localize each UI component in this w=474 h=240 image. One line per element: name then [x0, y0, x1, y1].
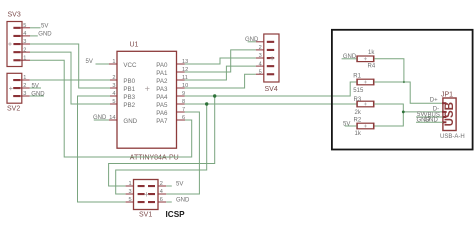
svg-text:5: 5: [112, 99, 115, 105]
svg-text:2: 2: [160, 181, 163, 187]
resistor R2: [354, 118, 374, 138]
SV3 pin stubs (pins 5,4,3,2,1): [21, 28, 30, 60]
svg-text:6: 6: [160, 197, 163, 203]
svg-text:SV4: SV4: [265, 86, 278, 93]
svg-text:ATTINY84A-PU: ATTINY84A-PU: [130, 155, 179, 162]
svg-text:SV1: SV1: [139, 212, 152, 219]
svg-text:PA4: PA4: [156, 94, 168, 101]
svg-text:5: 5: [23, 23, 26, 29]
SV2 pin numbers: [23, 75, 26, 97]
wire SV3 pin4 GND stub: [30, 35, 38, 37]
svg-text:3: 3: [23, 39, 26, 45]
U1 left pin stubs: [109, 64, 118, 120]
wire SV2 pin1 to U1 PB0: [30, 79, 110, 81]
junction PA5 branch: [205, 102, 208, 105]
wire PA4 branch to SV1 pin1: [109, 96, 215, 186]
svg-text:5V: 5V: [41, 23, 48, 29]
wire 5V stub to VCC: [96, 63, 110, 65]
svg-text:USB: USB: [443, 102, 456, 126]
svg-text:6: 6: [182, 115, 185, 121]
svg-text:4: 4: [112, 91, 115, 97]
svg-text:1: 1: [129, 181, 132, 187]
svg-text:R3: R3: [354, 97, 362, 103]
SV3 pin numbers: [23, 23, 26, 61]
wire SV4 pin1 GND stub: [248, 41, 256, 43]
wire SV2 pin3 GND stub: [30, 95, 44, 97]
wire SV3 pin3 to U1 PB1: [30, 44, 110, 88]
svg-text:1: 1: [23, 55, 26, 61]
wire U1 PA1 to SV4 pin2: [185, 50, 256, 72]
svg-text:SV2: SV2: [7, 106, 20, 113]
svg-text:2: 2: [259, 45, 262, 51]
svg-text:1k: 1k: [355, 131, 362, 137]
svg-text:4: 4: [259, 61, 262, 67]
SV1 pin numbers: [129, 181, 163, 203]
svg-text:ICSP: ICSP: [166, 210, 186, 219]
svg-text:PA0: PA0: [156, 62, 168, 69]
svg-text:PA7: PA7: [156, 118, 168, 125]
wire U1 PB3 to SV1 pin5: [78, 96, 126, 202]
USB connector JP1: [440, 92, 465, 140]
frame USB section: [332, 30, 473, 150]
svg-text:3: 3: [23, 91, 26, 97]
resistor R1: [353, 74, 374, 94]
svg-text:GND: GND: [31, 92, 45, 98]
wire SV3 pin1 to U1 PA7 (long route under U1): [30, 60, 192, 157]
U1 left pin numbers: [109, 59, 115, 121]
wire GND stub to U1 GND: [94, 119, 109, 121]
svg-text:PB2: PB2: [123, 102, 135, 109]
wire USB GND stub: [416, 121, 443, 123]
wire PA5 branch to SV1 pin3: [116, 104, 207, 194]
svg-text:2: 2: [23, 47, 26, 53]
wire U1 PA0 to SV4 pin3: [185, 58, 256, 64]
svg-text:3: 3: [129, 189, 132, 195]
SV1 pin stubs: [126, 186, 167, 202]
wire R1 right to USB D+: [374, 82, 443, 103]
svg-text:R1: R1: [353, 74, 361, 80]
wire R3 right to D- net and R2: [374, 104, 403, 126]
wire D- stub to USB: [403, 111, 443, 113]
svg-text:2: 2: [112, 75, 115, 81]
svg-text:5V: 5V: [176, 181, 183, 187]
svg-text:4: 4: [160, 189, 163, 195]
U1 origin cross: [145, 87, 149, 91]
svg-text:3: 3: [259, 53, 262, 59]
svg-text:PA2: PA2: [156, 78, 168, 85]
wire R4 right to R1 net: [374, 59, 404, 82]
svg-text:5: 5: [259, 69, 262, 75]
SV2 pin stubs (1,2,3): [21, 80, 30, 96]
wire U1 PA3 to SV4 pin5: [185, 74, 256, 88]
svg-text:PA1: PA1: [156, 70, 168, 77]
wire SV3 pin2 to U1 PB2: [30, 52, 110, 104]
resistor R4: [357, 50, 376, 70]
svg-text:GND: GND: [123, 118, 137, 125]
svg-text:USB-A-H: USB-A-H: [440, 134, 465, 140]
wire R2 5V stub: [345, 125, 357, 127]
junction D- net: [402, 111, 405, 114]
connector SV2: [7, 73, 22, 112]
svg-text:PB3: PB3: [123, 94, 135, 101]
svg-text:R4: R4: [368, 64, 376, 70]
SV3 origin cross: [8, 42, 12, 46]
SV4 pin numbers: [259, 45, 262, 75]
svg-text:GND: GND: [176, 197, 190, 203]
wire SV2 pin2 5V stub: [30, 87, 41, 89]
wire U1 PA6 to SV1 pin4: [166, 112, 199, 194]
wire VBUS stub: [416, 116, 443, 118]
svg-text:5: 5: [129, 197, 132, 203]
svg-text:2: 2: [23, 83, 26, 89]
SV1 origin cross: [144, 192, 148, 196]
SV2 origin cross: [9, 87, 13, 91]
U1 right pin stubs: [176, 64, 185, 120]
U1 left pin names: [123, 62, 137, 125]
SV4 pin stubs: [256, 42, 264, 74]
svg-text:14: 14: [109, 115, 115, 121]
SV4 origin cross: [270, 56, 274, 60]
wire U1 PA2 to SV4 pin4: [185, 66, 256, 80]
svg-text:PB0: PB0: [123, 78, 135, 85]
svg-text:3: 3: [112, 83, 115, 89]
U1 right pin names: [156, 62, 168, 125]
svg-text:GND: GND: [38, 32, 52, 38]
svg-text:PA3: PA3: [156, 86, 168, 93]
svg-text:VCC: VCC: [123, 62, 137, 69]
svg-text:JP1: JP1: [441, 92, 453, 99]
svg-text:5V: 5V: [32, 84, 39, 90]
connector SV1 ICSP: [134, 180, 159, 219]
svg-text:PB1: PB1: [123, 86, 135, 93]
wire SV3 pin5 5V stub: [30, 27, 41, 29]
svg-text:D+: D+: [430, 98, 438, 104]
svg-text:SV3: SV3: [8, 12, 21, 19]
svg-text:R2: R2: [354, 118, 362, 124]
op IC U1 ATTINY84A-PU: [117, 42, 179, 162]
junction PA4 branch: [213, 94, 216, 97]
svg-text:1: 1: [23, 75, 26, 81]
svg-text:U1: U1: [130, 42, 139, 49]
svg-text:PA5: PA5: [156, 102, 168, 109]
svg-text:515: 515: [353, 88, 364, 94]
junction R4/R1: [403, 81, 405, 83]
wire U1 PA5 to R3: [185, 103, 357, 105]
svg-text:4: 4: [23, 31, 26, 37]
wire SV1 pin2 5V stub: [166, 185, 172, 187]
svg-text:1: 1: [112, 59, 115, 65]
wire U1 PA4 to R1: [185, 82, 357, 96]
svg-text:2k: 2k: [355, 110, 362, 116]
svg-text:PA6: PA6: [156, 110, 168, 117]
connector SV3: [7, 12, 22, 67]
wire R4 GND stub: [342, 58, 357, 60]
U1 right pin numbers: [182, 59, 188, 121]
connector SV4: [264, 34, 279, 93]
svg-text:5V: 5V: [86, 59, 93, 65]
resistor R3: [354, 97, 374, 116]
svg-text:1k: 1k: [368, 50, 375, 56]
wire SV1 pin6 GND stub: [166, 201, 172, 203]
